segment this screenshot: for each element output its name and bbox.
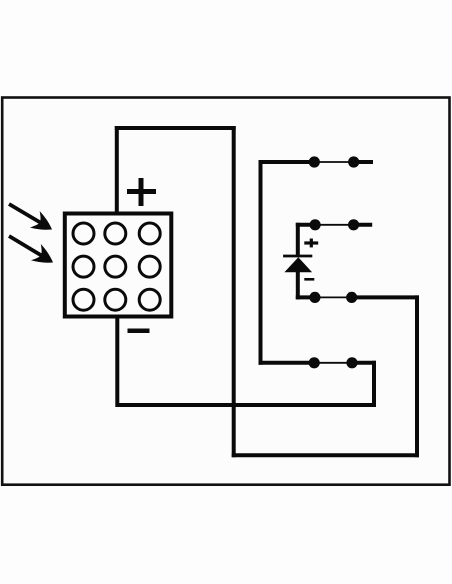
terminal dot row4 left xyxy=(309,357,320,368)
wire: bottom horizontal xyxy=(232,453,419,457)
LED D1 xyxy=(283,256,312,272)
light ray arrow 2 xyxy=(9,236,58,271)
wire: row3 left segment xyxy=(296,295,315,299)
wire: row2 thin link xyxy=(315,224,354,226)
wire: LED cathode lead xyxy=(296,270,300,299)
wire: LED anode lead xyxy=(296,223,300,257)
wire: right vertical D xyxy=(372,361,376,407)
wire: row3 thin link xyxy=(315,296,352,298)
terminal dot row1 left xyxy=(309,156,320,167)
wire: middle horizontal return xyxy=(117,403,376,407)
wire: row3 right segment xyxy=(352,295,419,299)
D1 minus label xyxy=(304,278,314,281)
solar panel PV1 xyxy=(65,214,172,317)
wire: row2 left segment xyxy=(296,223,315,227)
terminal dot row3 left xyxy=(309,292,320,303)
terminal dot row2 left xyxy=(310,219,321,230)
wire: row1 thin link xyxy=(314,161,353,163)
wire: right vertical C xyxy=(415,295,419,457)
light ray arrow 1 xyxy=(9,204,57,238)
wire: PV1 positive lead up xyxy=(115,126,119,216)
PV1 minus label xyxy=(128,328,150,333)
terminal dot row4 right xyxy=(346,357,357,368)
wire: row4 left segment xyxy=(259,361,315,365)
wire: row2 right stub xyxy=(354,223,373,227)
wire: row1 left segment xyxy=(259,160,315,164)
terminal dot row2 right xyxy=(348,219,359,230)
wire: row1 right stub xyxy=(354,160,373,164)
D1 plus label xyxy=(304,239,318,248)
wire: top horizontal xyxy=(115,126,236,130)
wire: long vertical B xyxy=(232,126,236,457)
PV1 plus label xyxy=(127,178,156,206)
wire: row4 right segment xyxy=(352,361,376,365)
wire: PV1 negative lead down xyxy=(115,313,119,407)
wire: row4 thin link xyxy=(314,362,352,364)
terminal dot row1 right xyxy=(348,156,359,167)
terminal dot row3 right xyxy=(346,292,357,303)
wire: left vertical A xyxy=(259,160,263,365)
